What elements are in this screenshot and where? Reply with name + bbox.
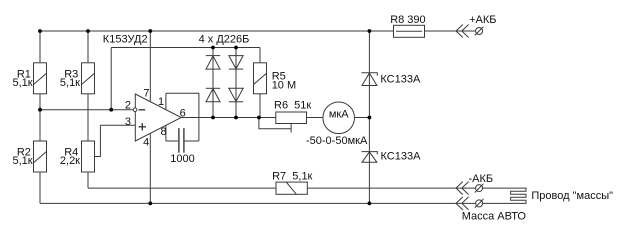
svg-text:Провод "массы": Провод "массы" (531, 190, 613, 202)
wire pin4 supply (149, 134, 151, 204)
svg-text:R6 51к: R6 51к (274, 100, 311, 112)
wire R6 to meter (307, 117, 323, 119)
svg-text:6: 6 (180, 108, 186, 120)
wire R1 column (39, 31, 41, 63)
node output / zener column (368, 116, 372, 120)
svg-text:1: 1 (158, 96, 164, 108)
svg-text:R8 390: R8 390 (390, 14, 425, 26)
node ground bus / pin4 (148, 202, 152, 206)
wire R5 bottom lead (259, 94, 261, 118)
svg-text:К153УД2: К153УД2 (103, 34, 148, 46)
meter PA1 microammeter (323, 102, 355, 134)
op-amp U1 triangle (135, 94, 181, 141)
svg-text:КС133А: КС133А (381, 151, 422, 163)
wire meter to zener column (355, 117, 370, 119)
diode VD1 bridge col1 top (206, 56, 220, 70)
wire R6 tap (290, 124, 292, 133)
wire -AKB rail right of R7 (307, 187, 475, 189)
connector -AKB clamp circle (475, 184, 484, 193)
svg-text:3: 3 (125, 116, 131, 128)
resistor R4 trimmer (82, 141, 95, 172)
svg-text:8: 8 (161, 126, 167, 138)
wire pin7 supply (149, 31, 151, 102)
resistor R2 (34, 141, 47, 172)
diode VD3 bridge col2 top (229, 56, 243, 70)
wire pin2 input (40, 109, 133, 111)
op-amp plus sign (139, 123, 146, 130)
wire top rail right of R8 (425, 30, 476, 32)
ground strap braid symbol (482, 188, 526, 203)
capacitor C1 1000 plates (179, 128, 184, 153)
resistor R1 (34, 63, 47, 94)
zener VD5 KC133A top (362, 73, 378, 86)
wire top positive rail (40, 30, 394, 32)
wire R3-R4 link (87, 94, 89, 141)
svg-text:7: 7 (143, 88, 149, 100)
svg-text:КС133А: КС133А (380, 74, 421, 86)
node top rail / pin7 (148, 29, 152, 33)
resistor R8 (394, 25, 425, 37)
node pin2 / feedback riser (109, 108, 113, 112)
zener VD6 KC133A bottom (362, 152, 378, 163)
node ground bus / zener column (368, 202, 372, 206)
wire feedback riser (110, 48, 112, 110)
connector +AKB clamp circle (475, 27, 484, 36)
connector Massa AVTO clamp circle (475, 199, 484, 208)
wire ground bus (40, 202, 476, 204)
connector Massa AVTO chevron (456, 197, 469, 210)
wire R4 bottom (87, 172, 89, 188)
resistor R5 (254, 63, 267, 94)
svg-text:-АКБ: -АКБ (469, 173, 494, 185)
svg-text:2: 2 (125, 100, 131, 112)
svg-text:5,1к: 5,1к (12, 155, 32, 167)
svg-text:2,2к: 2,2к (60, 155, 80, 167)
wire zener column (368, 31, 370, 203)
wire -AKB rail (88, 187, 276, 189)
wire R2 bottom (39, 172, 41, 203)
svg-text:мкА: мкА (329, 108, 349, 120)
wire output pin6 to R6 (181, 117, 276, 119)
wire R3 column (87, 31, 89, 63)
resistor R7 (276, 182, 307, 194)
wire R4 wiper link (95, 125, 101, 156)
op-amp minus sign (139, 109, 146, 111)
resistor R3 (82, 63, 95, 94)
op-amp inverting input bubble (133, 108, 137, 112)
node top rail / zener column (368, 29, 372, 33)
node bridge rail col2 (234, 46, 238, 50)
connector +AKB chevron (456, 25, 469, 38)
node bridge rail col1 (211, 46, 215, 50)
svg-text:4 х Д226Б: 4 х Д226Б (199, 34, 250, 46)
diode VD2 bridge col1 bottom (206, 88, 220, 102)
wire R5 top lead (259, 48, 261, 63)
svg-text:5,1к: 5,1к (60, 77, 80, 89)
compensation loop pins 1-8 (166, 93, 199, 141)
svg-text:10 М: 10 М (272, 79, 296, 91)
svg-text:+АКБ: +АКБ (469, 14, 496, 26)
node top rail / R3 (86, 29, 90, 33)
svg-text:Масса АВТО: Масса АВТО (462, 210, 527, 222)
node top rail / R1 (38, 29, 42, 33)
wire R6 wiper link (259, 118, 291, 129)
wire diode column 1 (212, 48, 214, 118)
svg-text:-50-0-50мкА: -50-0-50мкА (306, 135, 368, 147)
svg-text:R7 5,1к: R7 5,1к (272, 170, 312, 182)
svg-text:1000: 1000 (170, 153, 194, 165)
wire pin3 input (100, 124, 135, 126)
node output / col2 (234, 116, 238, 120)
wire R1-R2 link (39, 94, 41, 141)
diode VD4 bridge col2 bottom (229, 88, 243, 102)
node output / col1 (211, 116, 215, 120)
connector -AKB chevron (456, 182, 469, 195)
svg-text:4: 4 (143, 137, 149, 149)
resistor R6 trimmer (276, 112, 307, 124)
wire inner rail to diode bridge (111, 47, 260, 49)
node pin2 / R1R2 (38, 108, 42, 112)
node output / R5 (257, 116, 261, 120)
svg-text:5,1к: 5,1к (12, 77, 32, 89)
wire diode column 2 (235, 48, 237, 118)
